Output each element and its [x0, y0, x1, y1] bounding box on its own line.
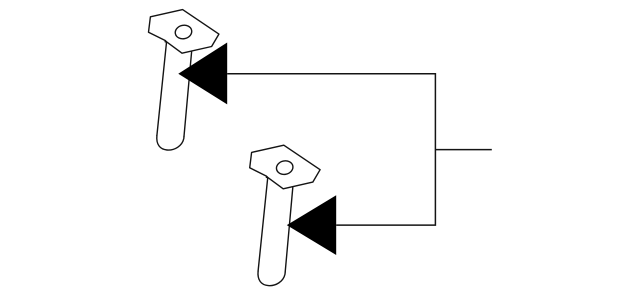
bolt B1 head flange outline: [149, 10, 219, 54]
bolt B1 shank left edge: [157, 42, 167, 135]
bolt B1 (upper hex-flange bolt): [149, 10, 219, 150]
bolt B2 head flange outline: [250, 145, 320, 189]
arrow A1 pointing at bolt B1: [178, 43, 227, 105]
bolt B2 shank rounded tip: [258, 271, 285, 286]
arrow A2 pointing at bolt B2: [287, 195, 336, 255]
bolt B2 shank left edge: [258, 178, 268, 271]
bolt B2 washer-face hole: [275, 159, 294, 176]
bolt B1 head corner notch: [165, 41, 167, 43]
leader polyline from arrow A1 right to vertical rail and down to arrow A2: [227, 74, 435, 225]
bolt B1 washer-face hole: [174, 24, 193, 41]
bolt B1 shank right edge: [184, 52, 192, 137]
bolt B1 shank rounded tip: [157, 136, 184, 151]
bolt B2 head corner notch: [266, 176, 268, 178]
bolt B2 (lower hex-flange bolt): [250, 145, 320, 285]
stub line to part group: [435, 149, 491, 151]
bolt B2 shank right edge: [285, 187, 293, 272]
